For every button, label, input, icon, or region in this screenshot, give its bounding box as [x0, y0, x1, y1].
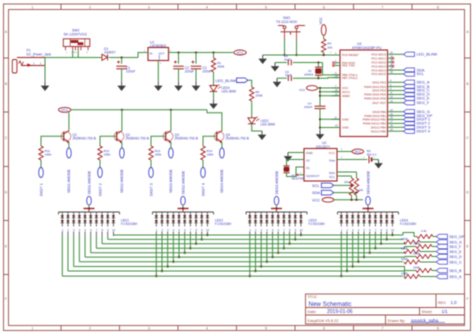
svg-text:150E: 150E [413, 266, 420, 270]
svg-text:FJ-5101BH: FJ-5101BH [215, 222, 232, 226]
svg-text:DIGIT 1: DIGIT 1 [39, 183, 43, 196]
svg-text:DIG7 PD7: DIG7 PD7 [372, 101, 386, 105]
svg-text:BS-2-1: BS-2-1 [367, 152, 377, 156]
svg-text:150E: 150E [413, 242, 420, 246]
svg-text:SEG_C: SEG_C [449, 260, 462, 264]
svg-text:2N3904G-T92-B: 2N3904G-T92-B [73, 137, 96, 141]
svg-text:SEG_A: SEG_A [449, 275, 462, 279]
svg-text:PD1 TXD: PD1 TXD [342, 64, 355, 68]
svg-text:3: 3 [148, 5, 150, 9]
svg-text:220uF: 220uF [185, 70, 194, 74]
svg-text:F: F [466, 297, 468, 301]
svg-text:GND: GND [342, 126, 350, 130]
svg-text:SEG_G: SEG_G [449, 240, 462, 244]
svg-text:7: 7 [382, 5, 384, 9]
svg-text:150E: 150E [413, 252, 420, 256]
svg-text:GND: GND [342, 118, 350, 122]
svg-text:10: 10 [300, 228, 304, 232]
svg-text:FJ-5101BH: FJ-5101BH [121, 222, 138, 226]
svg-text:1: 1 [32, 5, 34, 9]
svg-text:2N3904G-T92-B: 2N3904G-T92-B [226, 137, 249, 141]
svg-text:FJ-5101BH: FJ-5101BH [400, 222, 417, 226]
svg-text:SEG_D: SEG_D [449, 255, 462, 259]
svg-text:8: 8 [437, 327, 439, 331]
svg-text:SEG3 ANODE: SEG3 ANODE [169, 169, 173, 193]
svg-text:2: 2 [89, 5, 91, 9]
svg-text:5: 5 [265, 5, 267, 9]
svg-text:GND: GND [306, 151, 314, 155]
svg-text:10: 10 [206, 228, 210, 232]
svg-text:300E: 300E [217, 65, 224, 69]
svg-text:2N3904G-T92-B: 2N3904G-T92-B [126, 137, 149, 141]
svg-text:TITLE:: TITLE: [308, 295, 318, 299]
svg-text:SEG4 ANODE: SEG4 ANODE [220, 169, 224, 193]
svg-text:SK-12D07VG3: SK-12D07VG3 [64, 33, 87, 37]
svg-text:10k: 10k [344, 180, 349, 184]
svg-text:150E: 150E [401, 272, 408, 276]
svg-text:DC_Power_Jack: DC_Power_Jack [27, 52, 52, 56]
svg-text:22pF: 22pF [285, 73, 292, 77]
svg-text:SEG_B: SEG_B [449, 269, 462, 273]
svg-text:F: F [5, 297, 7, 301]
svg-text:VCC: VCC [312, 197, 320, 202]
svg-text:SEG1 ANODE: SEG1 ANODE [87, 170, 91, 194]
svg-text:SEG_F: SEG_F [449, 245, 462, 249]
svg-text:LED-3MM: LED-3MM [222, 90, 237, 94]
svg-text:PC5 ADC5: PC5 ADC5 [371, 72, 386, 76]
svg-text:4.4k: 4.4k [421, 229, 427, 233]
svg-text:SEG2 ANODE: SEG2 ANODE [120, 169, 124, 193]
svg-text:10k: 10k [359, 188, 364, 192]
svg-text:4: 4 [206, 327, 208, 331]
svg-text:VCC: VCC [354, 150, 362, 154]
svg-text:150E: 150E [401, 247, 408, 251]
svg-text:IN: IN [150, 51, 153, 55]
svg-text:SEG1 ANODE: SEG1 ANODE [67, 169, 71, 193]
svg-text:3: 3 [148, 327, 150, 331]
svg-text:SEG2 ANODE: SEG2 ANODE [181, 170, 185, 194]
svg-text:ATMEGA328P-PU: ATMEGA328P-PU [352, 46, 382, 50]
svg-text:100nF: 100nF [304, 105, 313, 109]
svg-text:2: 2 [89, 327, 91, 331]
svg-text:EasyEDA V5.8.22: EasyEDA V5.8.22 [308, 318, 339, 323]
svg-text:REV:: REV: [438, 301, 446, 305]
svg-text:DIGIT 3: DIGIT 3 [149, 183, 153, 196]
svg-text:LED-3MM: LED-3MM [261, 123, 276, 127]
svg-text:7: 7 [382, 327, 384, 331]
svg-text:4: 4 [206, 5, 208, 9]
svg-text:DIGIT 2: DIGIT 2 [98, 183, 102, 196]
svg-text:1.0: 1.0 [451, 300, 458, 305]
svg-text:150E: 150E [401, 237, 408, 241]
svg-text:SEG3 ANODE: SEG3 ANODE [275, 170, 279, 194]
svg-text:Drawn By:: Drawn By: [388, 318, 406, 323]
svg-text:DIG13 PB5: DIG13 PB5 [371, 129, 387, 133]
svg-text:SEG_DP: SEG_DP [449, 235, 465, 239]
svg-text:SCL: SCL [417, 71, 425, 76]
svg-text:22pF: 22pF [284, 57, 291, 61]
svg-text:SDA: SDA [312, 190, 320, 195]
svg-text:16MHz: 16MHz [304, 73, 314, 77]
svg-text:6: 6 [323, 327, 325, 331]
svg-text:SE32768: SE32768 [292, 177, 304, 181]
svg-text:10: 10 [391, 228, 395, 232]
svg-text:6: 6 [323, 5, 325, 9]
svg-text:10: 10 [112, 228, 116, 232]
svg-text:100k: 100k [45, 153, 52, 157]
svg-text:LED_BLINK: LED_BLINK [417, 52, 438, 57]
svg-text:5: 5 [265, 327, 267, 331]
svg-text:VCC: VCC [61, 108, 69, 112]
svg-text:OUT: OUT [159, 51, 165, 55]
svg-text:DIGIT 4: DIGIT 4 [417, 128, 431, 133]
svg-text:SEG_F: SEG_F [417, 100, 430, 105]
svg-text:LED_BLINK: LED_BLINK [216, 78, 237, 83]
svg-text:SEG4 ANODE: SEG4 ANODE [366, 170, 370, 194]
svg-text:DIGIT 4: DIGIT 4 [201, 183, 205, 196]
svg-text:PC6 RESET: PC6 RESET [342, 53, 359, 57]
svg-text:2019-01-06: 2019-01-06 [327, 309, 353, 315]
svg-text:SCL: SCL [312, 183, 320, 188]
svg-text:AREF: AREF [342, 94, 350, 98]
svg-text:8: 8 [437, 5, 439, 9]
svg-text:1/1: 1/1 [442, 309, 449, 314]
svg-text:100nF: 100nF [202, 70, 211, 74]
svg-text:Vbat: Vbat [329, 159, 335, 163]
svg-text:10k: 10k [327, 45, 332, 49]
svg-text:VCC: VCC [236, 51, 244, 55]
svg-text:Date:: Date: [308, 310, 317, 314]
svg-text:Sheet:: Sheet: [422, 310, 433, 314]
svg-text:GND: GND [159, 55, 161, 60]
svg-text:VCC: VCC [299, 88, 306, 92]
svg-text:TS-1102-401K: TS-1102-401K [276, 20, 298, 24]
svg-text:2N3904G-T92-B: 2N3904G-T92-B [175, 137, 198, 141]
svg-text:100k: 100k [104, 153, 111, 157]
svg-text:New Schematic: New Schematic [309, 301, 352, 308]
svg-text:X1: X1 [306, 166, 310, 170]
svg-text:1N4007: 1N4007 [104, 51, 116, 55]
svg-text:220uF: 220uF [126, 70, 135, 74]
svg-text:150E: 150E [255, 94, 262, 98]
svg-text:X2: X2 [306, 159, 310, 163]
svg-text:150E: 150E [401, 257, 408, 261]
svg-text:VCC: VCC [319, 17, 323, 25]
svg-text:SQWOUT: SQWOUT [306, 174, 320, 178]
svg-text:100k: 100k [207, 153, 214, 157]
svg-text:PB7 XTAL2: PB7 XTAL2 [342, 76, 358, 80]
svg-text:FJ-5101BH: FJ-5101BH [309, 222, 326, 226]
svg-text:1: 1 [32, 327, 34, 331]
svg-text:VCC: VCC [329, 151, 336, 155]
svg-text:souvick_saha: souvick_saha [411, 318, 439, 323]
svg-text:SCL: SCL [329, 175, 335, 179]
svg-text:SEG_E: SEG_E [449, 250, 462, 254]
svg-text:100k: 100k [155, 153, 162, 157]
